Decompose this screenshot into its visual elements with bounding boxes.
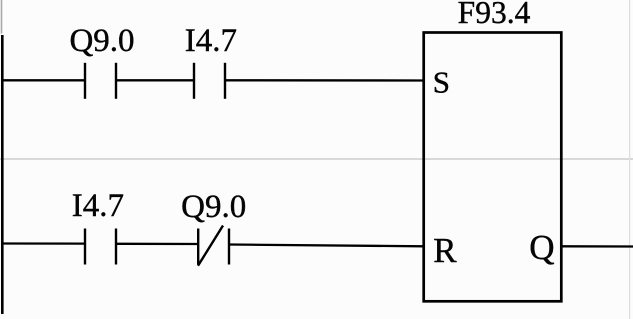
svg-text:R: R bbox=[433, 231, 457, 270]
svg-text:Q: Q bbox=[529, 228, 554, 267]
wire: contact I4.7 to S input of block bbox=[225, 79, 424, 81]
svg-text:Q9.0: Q9.0 bbox=[181, 189, 246, 225]
svg-text:Q9.0: Q9.0 bbox=[69, 23, 134, 59]
faint rail continuation (top-left) bbox=[1, 0, 3, 34]
SR flip-flop block F93.4 bbox=[424, 33, 562, 302]
faint page-edge vertical line bbox=[629, 0, 631, 319]
contact I4.7 (NO), top rung bbox=[194, 63, 225, 99]
contact Q9.0 (NC), bottom rung bbox=[198, 226, 229, 266]
wire: rail to contact Q9.0 (top rung) bbox=[1, 79, 85, 81]
wire: contact Q9.0 to R input of block bbox=[229, 245, 424, 247]
faint separator line between networks bbox=[0, 158, 633, 160]
contact I4.7 (NO), bottom rung bbox=[85, 229, 116, 265]
wire: contact I4.7 to contact Q9.0 (bottom rung) bbox=[116, 243, 198, 245]
svg-text:I4.7: I4.7 bbox=[185, 23, 237, 59]
svg-text:F93.4: F93.4 bbox=[458, 0, 531, 30]
contact Q9.0 (NO), top rung bbox=[85, 63, 116, 99]
wire: Q output to right edge bbox=[562, 245, 633, 247]
svg-text:S: S bbox=[433, 65, 450, 100]
left power rail bbox=[1, 35, 4, 314]
wire: rail to contact I4.7 (bottom rung) bbox=[1, 242, 85, 244]
svg-text:I4.7: I4.7 bbox=[72, 188, 124, 224]
wire: contact Q9.0 to contact I4.7 (top rung) bbox=[116, 79, 194, 81]
